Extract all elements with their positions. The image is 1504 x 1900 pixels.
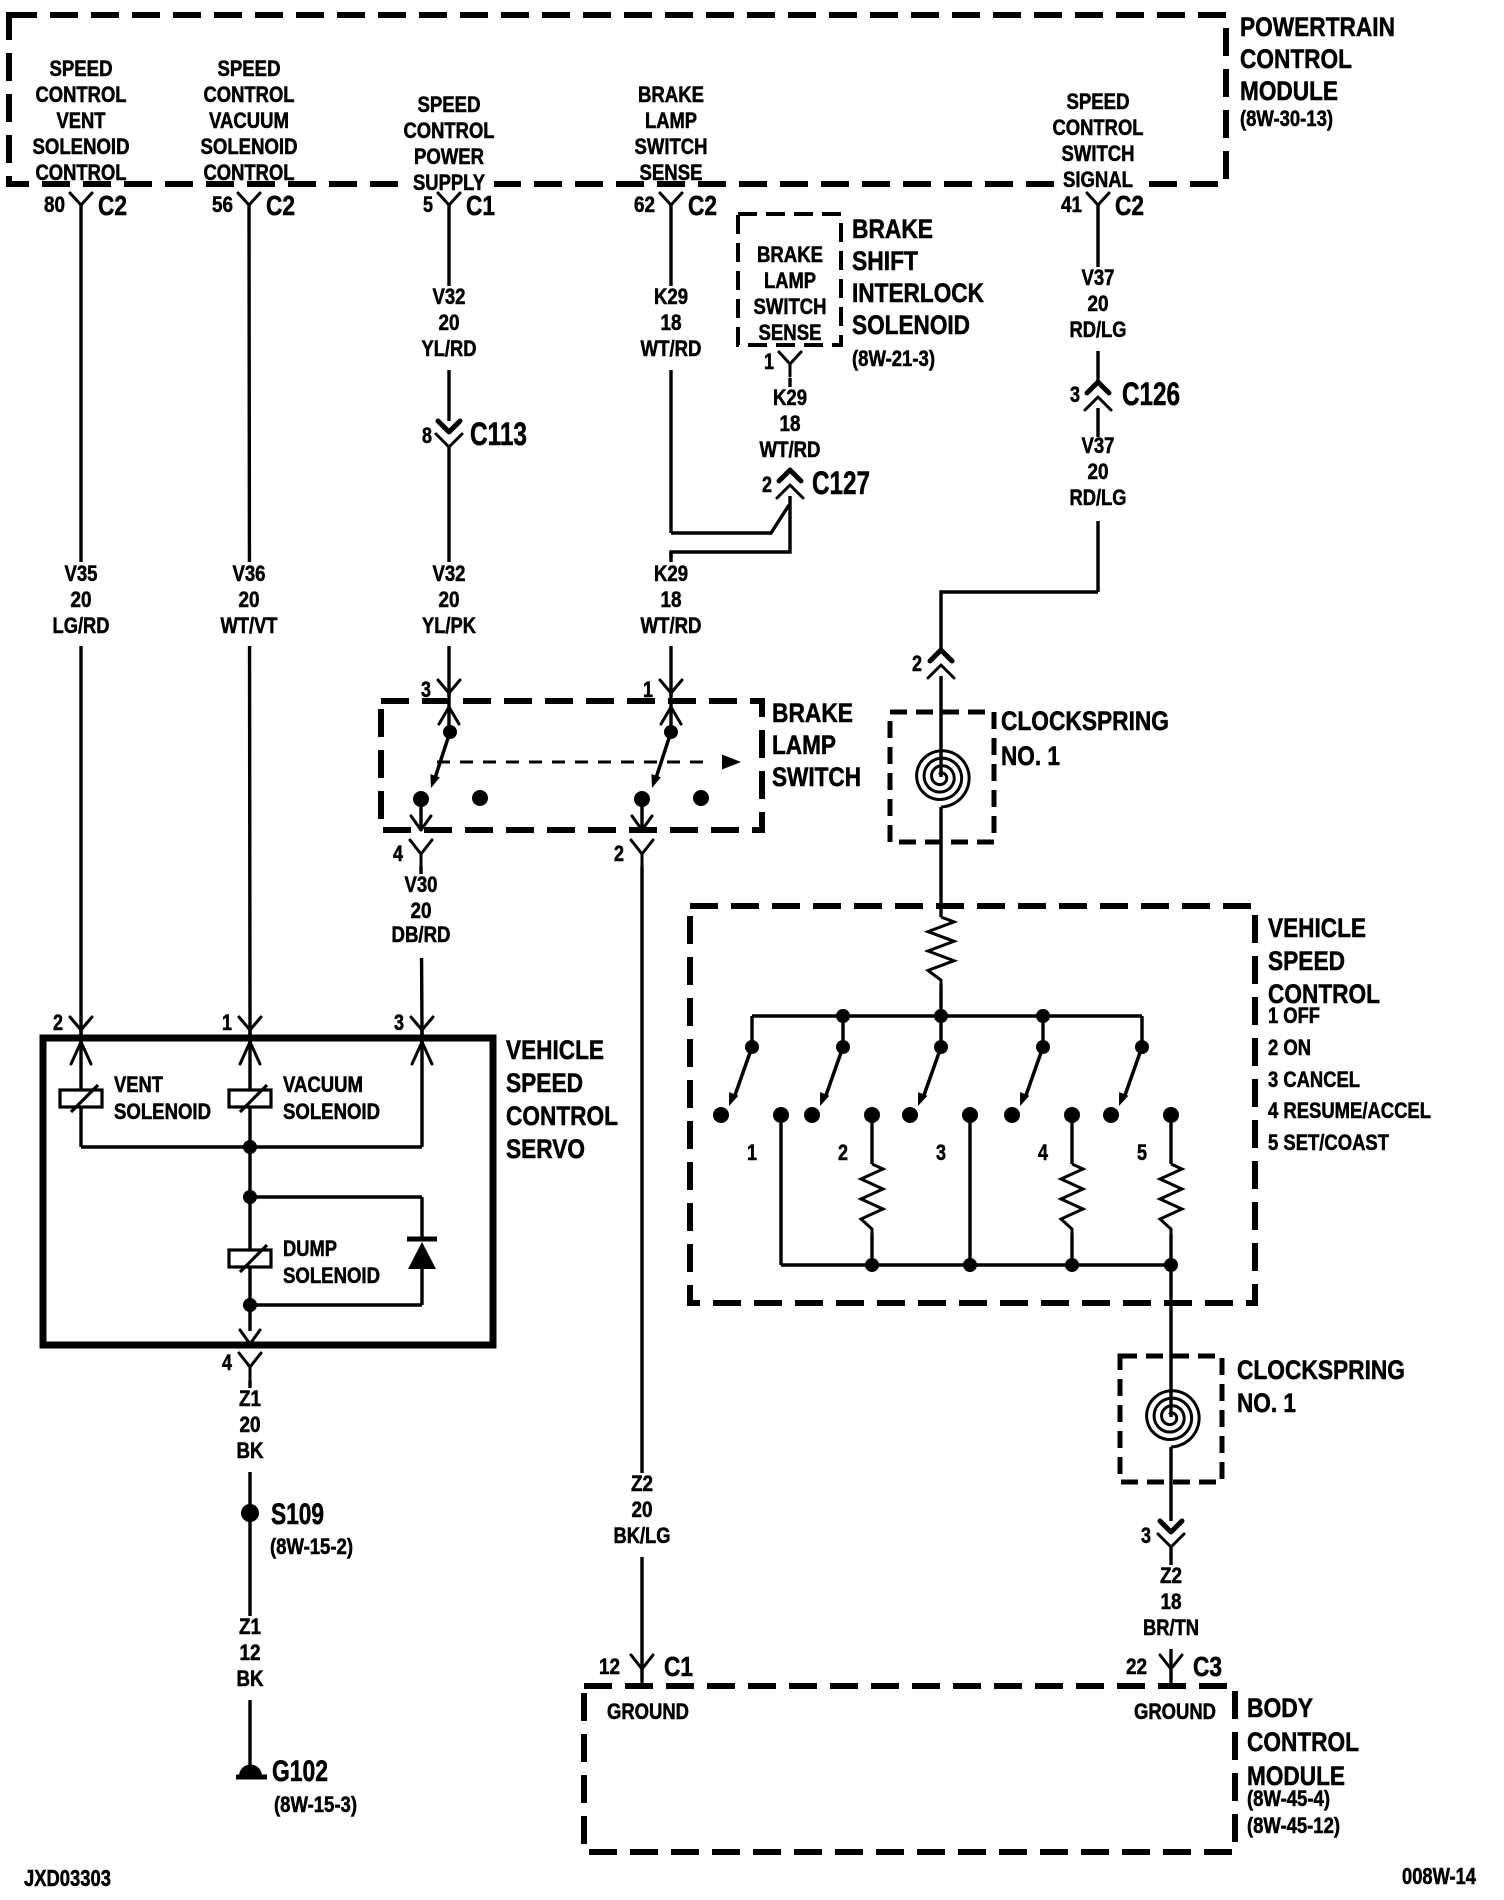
diode D1	[407, 1237, 437, 1242]
svg-text:GROUND: GROUND	[607, 1699, 689, 1724]
pin 5 C1	[438, 193, 460, 217]
connector C113 pin 8	[438, 421, 460, 432]
svg-text:SWITCH: SWITCH	[754, 294, 827, 319]
connector C127 pin 2	[779, 470, 801, 481]
wire K29 to brake lamp switch pin 1	[669, 552, 672, 696]
pin 2 servo	[70, 1017, 92, 1030]
svg-text:SENSE: SENSE	[759, 320, 822, 345]
svg-text:Z2: Z2	[1160, 1563, 1182, 1588]
wire elbow V37 to clockspring drop	[941, 592, 1098, 650]
svg-text:20: 20	[439, 587, 460, 612]
svg-text:V32: V32	[433, 561, 466, 586]
pin 2 brake lamp switch	[631, 840, 653, 866]
svg-text:22: 22	[1126, 1654, 1147, 1679]
svg-text:CONTROL: CONTROL	[1247, 1727, 1359, 1757]
svg-text:CLOCKSPRING: CLOCKSPRING	[1001, 706, 1169, 736]
svg-text:8: 8	[422, 423, 432, 448]
wire diode branch	[420, 1197, 423, 1240]
linkage dashed arrow	[437, 761, 713, 764]
wire switch 3 contact down	[968, 1123, 971, 1265]
svg-text:CONTROL: CONTROL	[404, 118, 495, 143]
pin 56 C2	[238, 193, 260, 217]
clockspring no.1 lower coil	[1147, 1391, 1200, 1447]
wire V35 from PCM pin 80 to servo pin 2	[79, 205, 82, 1030]
svg-text:VEHICLE: VEHICLE	[1268, 913, 1366, 943]
pin 41 C2	[1087, 193, 1109, 217]
junction node servo C	[243, 1298, 257, 1312]
svg-text:VEHICLE: VEHICLE	[506, 1035, 604, 1065]
svg-text:(8W-15-3): (8W-15-3)	[274, 1792, 357, 1817]
svg-text:BR/TN: BR/TN	[1143, 1615, 1199, 1640]
svg-text:SIGNAL: SIGNAL	[1063, 167, 1133, 192]
svg-text:4: 4	[1038, 1140, 1049, 1165]
svg-text:V35: V35	[65, 561, 98, 586]
svg-text:POWER: POWER	[414, 144, 484, 169]
svg-text:CONTROL: CONTROL	[1240, 44, 1352, 74]
body control module	[584, 1686, 1235, 1852]
entry chevron servo pin 2	[71, 1042, 91, 1064]
wire V37 from PCM pin 41 through C126	[1096, 205, 1099, 382]
exit chevron pin 4	[411, 816, 431, 830]
wire from speed control to clockspring no.1 lower	[1169, 1265, 1172, 1417]
svg-text:C113: C113	[470, 416, 527, 452]
wire switch 2 contact to resistor	[870, 1123, 873, 1164]
ground G102	[239, 1765, 262, 1777]
svg-text:18: 18	[661, 587, 682, 612]
svg-text:Z2: Z2	[631, 1471, 653, 1496]
vacuum solenoid	[229, 1090, 271, 1107]
svg-text:2: 2	[53, 1010, 63, 1035]
svg-text:SOLENOID: SOLENOID	[852, 310, 970, 340]
svg-text:SPEED: SPEED	[1268, 946, 1345, 976]
svg-text:(8W-15-2): (8W-15-2)	[270, 1534, 353, 1559]
svg-text:2: 2	[614, 841, 624, 866]
svg-text:Z1: Z1	[239, 1386, 261, 1411]
svg-text:DB/RD: DB/RD	[392, 922, 451, 947]
svg-text:C126: C126	[1122, 376, 1180, 412]
svg-text:008W-14: 008W-14	[1402, 1863, 1476, 1889]
svg-text:SWITCH: SWITCH	[635, 134, 708, 159]
svg-text:V37: V37	[1082, 433, 1115, 458]
svg-text:LAMP: LAMP	[764, 268, 816, 293]
entry chevron servo pin 1	[240, 1042, 260, 1064]
wire V32 from PCM pin 5 through C113 to brake lamp switch pin 3	[447, 205, 450, 421]
switch 4 speed control	[1036, 1040, 1050, 1054]
junction bottom bus dots	[865, 1258, 879, 1272]
pin 12 C1 body control module	[631, 1655, 653, 1683]
wire V36 from PCM pin 56 to servo pin 1	[249, 205, 250, 1030]
wire elbow from K29 to connector C127	[671, 505, 789, 533]
switch blade right	[664, 725, 678, 739]
contact dots left	[413, 791, 429, 807]
contact dots right	[634, 791, 650, 807]
svg-text:5 SET/COAST: 5 SET/COAST	[1268, 1130, 1389, 1155]
svg-text:CONTROL: CONTROL	[36, 160, 127, 185]
svg-text:CONTROL: CONTROL	[506, 1101, 618, 1131]
wire from chevron 2 into clockspring no.1 to spiral	[939, 676, 942, 777]
powertrain control module	[9, 15, 1226, 184]
svg-text:20: 20	[240, 1412, 261, 1437]
svg-text:JXD03303: JXD03303	[24, 1865, 111, 1891]
svg-text:POWERTRAIN: POWERTRAIN	[1240, 12, 1395, 42]
wire switch 5 contact to resistor	[1169, 1123, 1172, 1164]
svg-text:20: 20	[1088, 459, 1109, 484]
svg-text:SHIFT: SHIFT	[852, 246, 918, 276]
vent solenoid	[60, 1090, 102, 1107]
svg-text:CLOCKSPRING: CLOCKSPRING	[1237, 1355, 1405, 1385]
svg-text:GROUND: GROUND	[1134, 1699, 1216, 1724]
svg-text:4: 4	[222, 1350, 233, 1375]
svg-text:4: 4	[393, 841, 404, 866]
pin 3 brake lamp switch	[438, 680, 460, 693]
wire servo pin 1 branch through vacuum solenoid	[248, 1030, 251, 1090]
wire switch 1 contact down	[779, 1123, 782, 1265]
svg-text:SPEED: SPEED	[50, 56, 113, 81]
svg-text:1: 1	[643, 677, 653, 702]
svg-text:1: 1	[222, 1010, 232, 1035]
svg-text:CONTROL: CONTROL	[204, 160, 295, 185]
wire dump solenoid branch	[250, 1195, 422, 1198]
wire K29 branch to brake shift interlock solenoid pin 1	[788, 378, 791, 470]
svg-text:5: 5	[1137, 1140, 1147, 1165]
svg-text:LAMP: LAMP	[645, 108, 697, 133]
svg-text:RD/LG: RD/LG	[1070, 485, 1127, 510]
svg-text:DUMP: DUMP	[283, 1236, 337, 1261]
svg-text:4 RESUME/ACCEL: 4 RESUME/ACCEL	[1268, 1098, 1431, 1123]
svg-text:BODY: BODY	[1247, 1693, 1313, 1723]
svg-text:V37: V37	[1082, 265, 1115, 290]
svg-text:20: 20	[632, 1497, 653, 1522]
svg-text:BK: BK	[237, 1438, 264, 1463]
svg-text:NO. 1: NO. 1	[1001, 741, 1060, 771]
svg-text:12: 12	[240, 1640, 261, 1665]
wire junction row under solenoids	[81, 1145, 422, 1148]
clockspring no.1 upper	[890, 712, 994, 842]
wire Z1 12 BK from S109 to ground G102	[248, 1517, 251, 1765]
wire resistor to switch bus	[939, 985, 942, 1016]
svg-text:3: 3	[1141, 1523, 1151, 1548]
pin 3 servo	[411, 1017, 433, 1030]
svg-text:1: 1	[764, 349, 774, 374]
wire servo pin 3 branch down	[420, 1030, 423, 1147]
connector C126 pin 3	[1087, 382, 1109, 393]
svg-text:20: 20	[239, 587, 260, 612]
svg-text:MODULE: MODULE	[1240, 76, 1338, 106]
svg-text:(8W-45-12): (8W-45-12)	[1247, 1813, 1340, 1838]
svg-text:3: 3	[394, 1010, 404, 1035]
exit chevron servo pin 4	[240, 1330, 260, 1344]
switch 2 speed control	[836, 1040, 850, 1054]
entry chevron pin 1	[661, 707, 681, 724]
pin 1 servo	[239, 1017, 261, 1030]
svg-text:C2: C2	[98, 190, 127, 221]
junction bus dots	[836, 1009, 850, 1023]
svg-text:CONTROL: CONTROL	[36, 82, 127, 107]
svg-text:12: 12	[599, 1654, 620, 1679]
svg-text:K29: K29	[654, 561, 688, 586]
svg-text:2: 2	[838, 1140, 848, 1165]
svg-text:BK: BK	[237, 1666, 264, 1691]
svg-text:18: 18	[1161, 1589, 1182, 1614]
svg-text:SPEED: SPEED	[506, 1068, 583, 1098]
svg-text:WT/VT: WT/VT	[221, 613, 278, 638]
wire from C127 stem to K29 down-run	[671, 496, 790, 558]
pin 62 C2	[660, 193, 682, 217]
svg-text:C2: C2	[688, 190, 717, 221]
svg-text:SOLENOID: SOLENOID	[114, 1099, 211, 1124]
svg-text:SOLENOID: SOLENOID	[283, 1263, 380, 1288]
svg-text:3: 3	[421, 677, 431, 702]
svg-text:YL/RD: YL/RD	[422, 336, 477, 361]
pin 1 brake lamp switch	[660, 680, 682, 693]
svg-text:18: 18	[661, 310, 682, 335]
svg-text:20: 20	[1088, 291, 1109, 316]
svg-text:18: 18	[780, 411, 801, 436]
splice S109	[241, 1504, 259, 1522]
svg-text:CONTROL: CONTROL	[1053, 115, 1144, 140]
svg-text:LAMP: LAMP	[772, 730, 836, 760]
clockspring no.1 lower	[1120, 1356, 1222, 1482]
wire switch 4 contact to resistor	[1070, 1123, 1073, 1164]
vehicle speed control servo	[43, 1038, 493, 1345]
svg-text:YL/PK: YL/PK	[422, 613, 476, 638]
svg-text:SPEED: SPEED	[418, 92, 481, 117]
svg-text:2 ON: 2 ON	[1268, 1035, 1311, 1060]
svg-text:(8W-45-4): (8W-45-4)	[1247, 1786, 1330, 1811]
svg-text:VENT: VENT	[114, 1072, 163, 1097]
resistor under switch 5	[1160, 1164, 1182, 1234]
svg-text:1: 1	[747, 1140, 757, 1165]
svg-text:SOLENOID: SOLENOID	[201, 134, 298, 159]
svg-text:C1: C1	[664, 1651, 693, 1682]
svg-text:SPEED: SPEED	[1067, 89, 1130, 114]
svg-text:2: 2	[762, 472, 772, 497]
svg-text:3: 3	[936, 1140, 946, 1165]
svg-text:VACUUM: VACUUM	[209, 108, 289, 133]
svg-text:V36: V36	[233, 561, 266, 586]
svg-text:SOLENOID: SOLENOID	[33, 134, 130, 159]
svg-text:Z1: Z1	[239, 1614, 261, 1639]
svg-text:C2: C2	[266, 190, 295, 221]
wire Z2 BK/LG from brake lamp switch pin 2 to BCM pin 12	[640, 806, 643, 831]
entry chevron servo pin 3	[412, 1042, 432, 1064]
svg-text:5: 5	[423, 192, 433, 217]
svg-text:(8W-30-13): (8W-30-13)	[1240, 106, 1333, 131]
pin 1 brake shift interlock solenoid	[779, 352, 801, 376]
wire from clockspring no.1 to speed control resistor	[939, 807, 942, 917]
resistor speed control feed	[928, 917, 954, 985]
svg-text:(8W-21-3): (8W-21-3)	[852, 346, 935, 371]
svg-text:20: 20	[71, 587, 92, 612]
svg-text:80: 80	[44, 192, 65, 217]
pin 4 brake lamp switch	[410, 840, 432, 866]
svg-text:3: 3	[1070, 382, 1080, 407]
wire bottom bus	[781, 1263, 1171, 1266]
svg-text:S109: S109	[271, 1498, 324, 1531]
svg-text:20: 20	[411, 898, 432, 923]
svg-text:V30: V30	[405, 872, 438, 897]
wire servo pin 2 branch to vent solenoid	[79, 1030, 82, 1090]
exit chevron pin 2	[632, 816, 652, 830]
svg-text:2: 2	[912, 651, 922, 676]
svg-text:3 CANCEL: 3 CANCEL	[1268, 1067, 1360, 1092]
svg-text:20: 20	[439, 310, 460, 335]
svg-text:K29: K29	[773, 385, 807, 410]
wire Z2 BR/TN to BCM pin 22	[1169, 1547, 1172, 1682]
svg-text:WT/RD: WT/RD	[641, 613, 702, 638]
brake shift interlock solenoid	[738, 214, 841, 345]
svg-text:VACUUM: VACUUM	[283, 1072, 363, 1097]
svg-text:SOLENOID: SOLENOID	[283, 1099, 380, 1124]
wire from clockspring no.1 lower to chevron 3	[1169, 1447, 1172, 1521]
switch 3 speed control	[934, 1040, 948, 1054]
svg-text:WT/RD: WT/RD	[641, 336, 702, 361]
svg-text:SPEED: SPEED	[218, 56, 281, 81]
svg-text:SERVO: SERVO	[506, 1134, 585, 1164]
svg-text:LG/RD: LG/RD	[53, 613, 110, 638]
svg-text:RD/LG: RD/LG	[1070, 317, 1127, 342]
svg-text:V32: V32	[433, 284, 466, 309]
svg-text:BRAKE: BRAKE	[757, 242, 823, 267]
svg-text:NO. 1: NO. 1	[1237, 1388, 1296, 1418]
svg-text:BRAKE: BRAKE	[772, 698, 853, 728]
wire Z1 20 BK from servo pin 4 to splice S109	[248, 1380, 251, 1509]
junction node servo B	[243, 1190, 257, 1204]
svg-text:K29: K29	[654, 284, 688, 309]
brake lamp switch	[381, 701, 762, 830]
svg-text:1 OFF: 1 OFF	[1268, 1003, 1320, 1028]
svg-text:41: 41	[1061, 192, 1082, 217]
svg-text:BK/LG: BK/LG	[614, 1523, 671, 1548]
pin 4 servo	[239, 1353, 261, 1379]
svg-text:BRAKE: BRAKE	[852, 214, 933, 244]
pin 22 C3 body control module	[1160, 1655, 1182, 1683]
connector chevron pin 3 below clockspring	[1160, 1521, 1182, 1532]
svg-text:C3: C3	[1193, 1651, 1222, 1682]
svg-text:C1: C1	[466, 190, 495, 221]
svg-text:C127: C127	[812, 465, 870, 501]
svg-text:G102: G102	[272, 1755, 328, 1788]
svg-text:SWITCH: SWITCH	[772, 762, 861, 792]
junction node servo A	[243, 1140, 257, 1154]
svg-text:CONTROL: CONTROL	[204, 82, 295, 107]
vehicle speed control	[690, 906, 1255, 1303]
svg-text:SENSE: SENSE	[640, 160, 703, 185]
svg-text:WT/RD: WT/RD	[760, 437, 821, 462]
pin 80 C2	[70, 193, 92, 217]
switch 1 speed control	[745, 1040, 759, 1054]
connector chevron pin 2 above clockspring	[930, 650, 952, 661]
svg-text:C2: C2	[1115, 190, 1144, 221]
resistor under switch 4	[1061, 1164, 1083, 1234]
switch 5 speed control	[1135, 1040, 1149, 1054]
entry chevron pin 3	[439, 707, 459, 724]
svg-text:SWITCH: SWITCH	[1062, 141, 1135, 166]
svg-text:VENT: VENT	[57, 108, 106, 133]
resistor under switch 2	[861, 1164, 883, 1234]
wire V30 from brake lamp switch pin 4 to servo pin 3	[419, 806, 422, 831]
svg-text:INTERLOCK: INTERLOCK	[852, 278, 984, 308]
dump solenoid	[229, 1250, 271, 1267]
svg-text:56: 56	[212, 192, 233, 217]
svg-text:62: 62	[634, 192, 655, 217]
switch blade left	[443, 725, 457, 739]
clockspring no.1 upper coil	[917, 751, 970, 807]
wire K29 from PCM pin 62 down to elbow	[669, 205, 672, 533]
svg-text:BRAKE: BRAKE	[638, 82, 704, 107]
wire switch common bus	[752, 1014, 1142, 1017]
